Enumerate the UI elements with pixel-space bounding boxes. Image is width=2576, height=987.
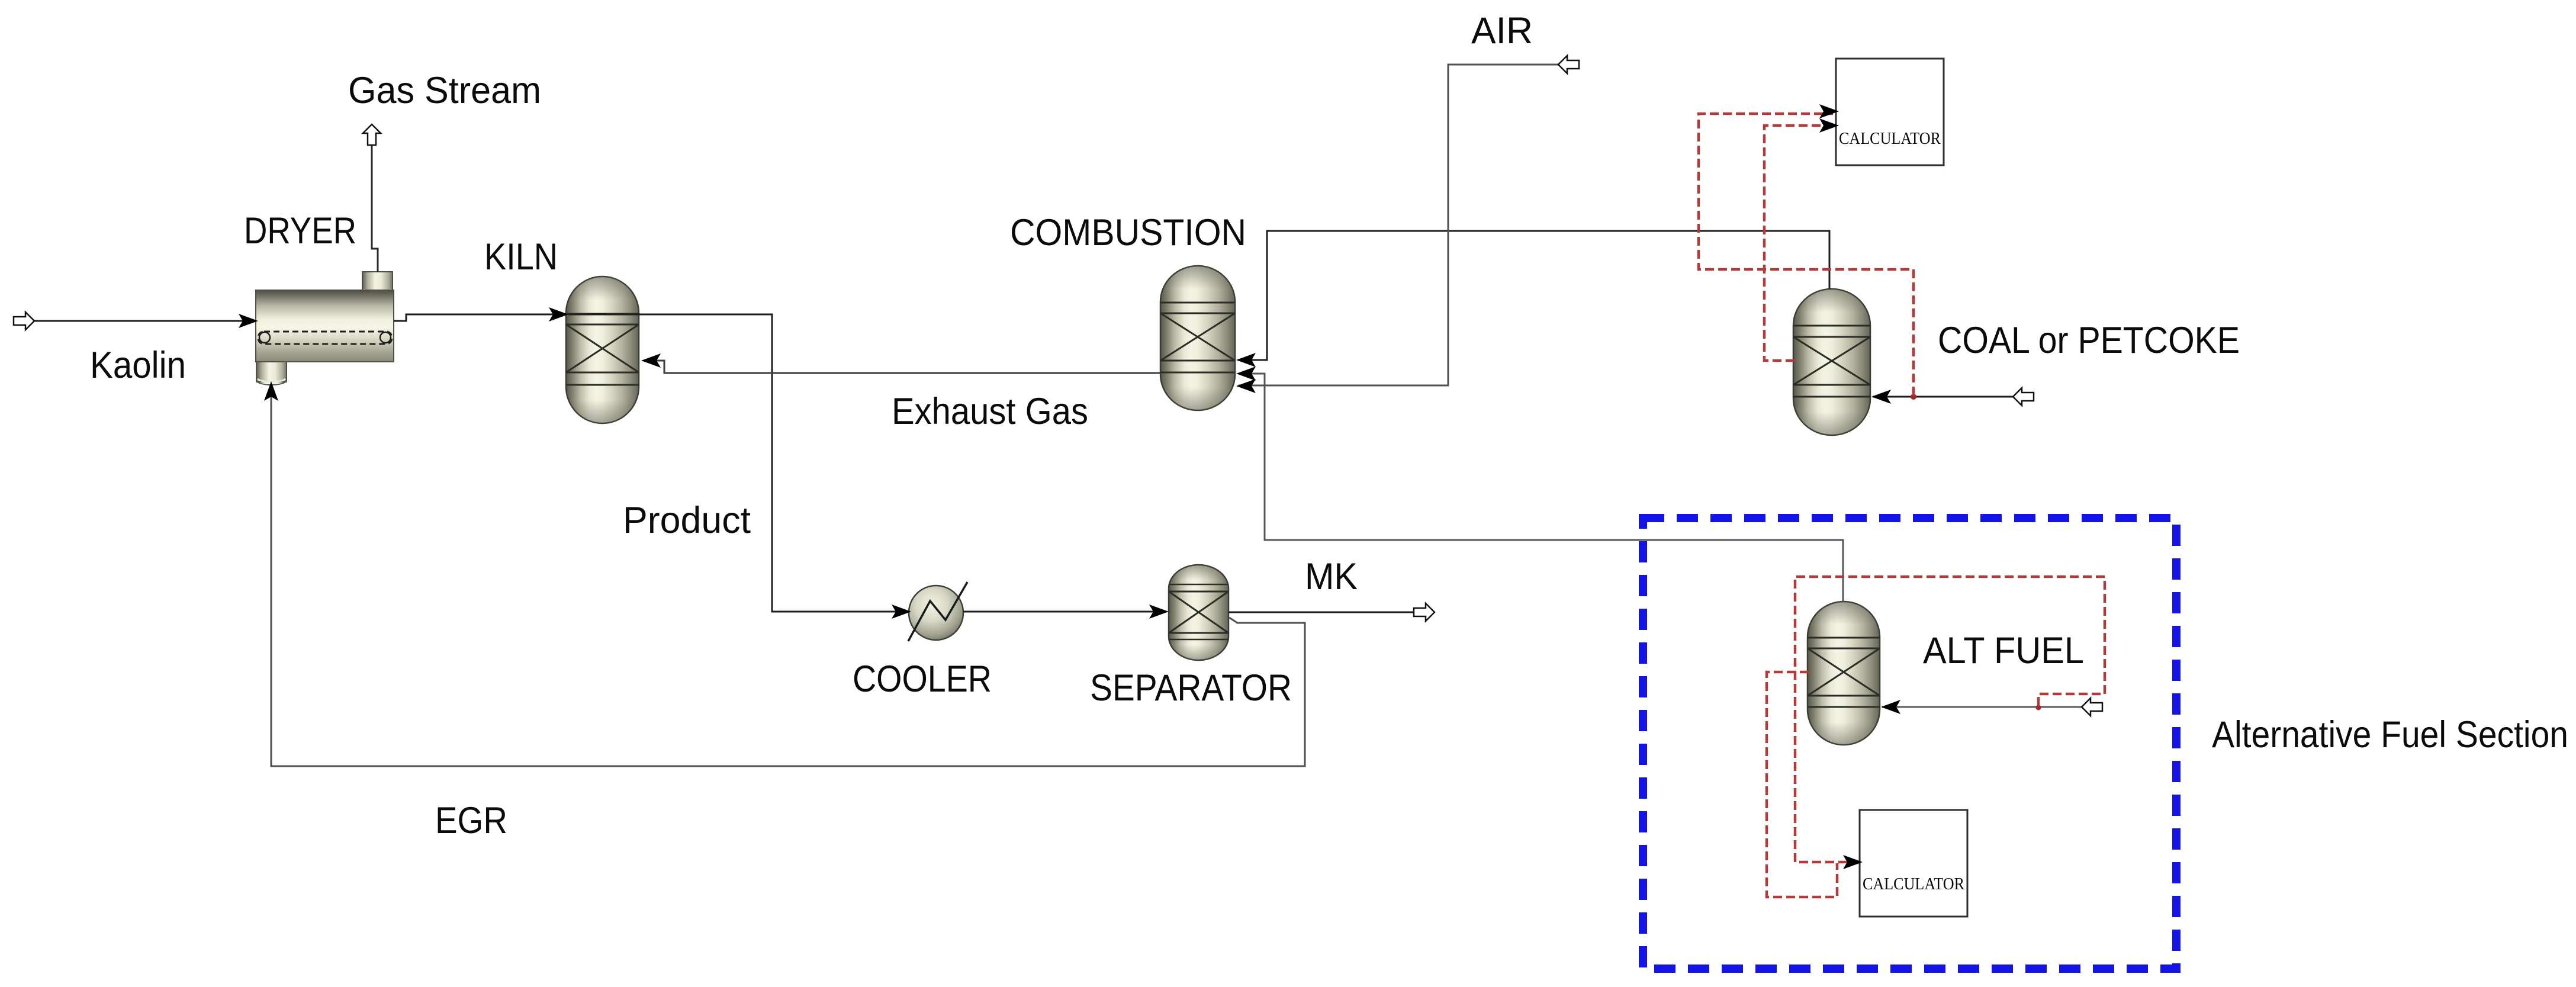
svg-text:DRYER: DRYER <box>244 210 356 252</box>
label EGR <box>435 800 507 841</box>
node arrow into ALT FUEL vessel <box>1881 700 1900 714</box>
label Product <box>623 500 751 541</box>
node arrow into COAL vessel <box>1871 390 1891 404</box>
node arrow into COOLER <box>892 605 911 619</box>
svg-text:Product: Product <box>623 500 751 541</box>
wire red signal COAL feed to upper CALCULATOR <box>1699 104 1913 396</box>
svg-text:EGR: EGR <box>435 800 507 841</box>
svg-text:KILN: KILN <box>484 236 558 278</box>
wire AIR feed to COMBUSTION <box>1239 65 1558 385</box>
wire MK product <box>1228 612 1415 613</box>
svg-text:MK: MK <box>1305 556 1358 597</box>
svg-text:CALCULATOR: CALCULATOR <box>1839 129 1941 148</box>
calculator CALCULATOR lower box <box>1860 810 1967 917</box>
wire red signal loop around ALT FUEL vessel <box>1795 577 2105 869</box>
label Alternative Fuel Section <box>2212 714 2568 755</box>
node red junction on ALT FUEL feed line <box>2036 705 2041 710</box>
wire Gas Stream riser <box>372 146 378 272</box>
svg-text:SEPARATOR: SEPARATOR <box>1090 667 1292 709</box>
label COAL or PETCOKE <box>1938 320 2240 361</box>
wire red signal COAL vessel to upper CALCULATOR <box>1764 118 1839 361</box>
node arrow into COMBUSTION upper <box>1236 353 1256 367</box>
dryer DRYER rotary drum <box>256 272 394 385</box>
wire red signal ALT FUEL vessel to lower CALCULATOR <box>1767 672 1837 897</box>
node arrow into DRYER <box>239 314 258 328</box>
svg-text:Kaolin: Kaolin <box>90 345 186 386</box>
wire COOLER to SEPARATOR <box>963 611 1158 613</box>
svg-text:CALCULATOR: CALCULATOR <box>1863 875 1965 893</box>
node arrow into KILN <box>549 307 568 322</box>
svg-text:Gas Stream: Gas Stream <box>348 70 541 111</box>
wire DRYER to KILN <box>394 314 564 321</box>
wire Exhaust Gas COMBUSTION to KILN <box>644 361 1160 373</box>
svg-text:Exhaust Gas: Exhaust Gas <box>892 391 1088 432</box>
label ALT FUEL <box>1923 630 2084 671</box>
svg-text:COMBUSTION: COMBUSTION <box>1010 212 1246 253</box>
label KILN <box>484 236 558 278</box>
svg-text:COOLER: COOLER <box>853 658 992 700</box>
wire ALT FUEL feed stream <box>1882 706 2082 708</box>
label Gas Stream <box>348 70 541 111</box>
node arrow into COMBUSTION middle <box>1236 366 1256 381</box>
wire COAL feed stream <box>1873 396 2013 398</box>
boundary Alternative Fuel Section blue dashed box <box>1643 518 2176 969</box>
wire KILN through-line and Product drop <box>568 314 898 612</box>
label DRYER <box>244 210 356 252</box>
vessel ALT FUEL decomposer <box>1808 602 1880 745</box>
vessel COAL decomposer <box>1793 289 1870 435</box>
wire EGR recycle SEPARATOR to DRYER <box>271 388 1305 766</box>
node AIR source open-arrow <box>1558 56 1579 73</box>
cooler COOLER heat exchanger <box>908 582 967 641</box>
svg-text:Alternative Fuel Section: Alternative Fuel Section <box>2212 714 2568 755</box>
label MK <box>1305 556 1358 597</box>
node arrow into COMBUSTION lower <box>1236 379 1256 393</box>
vessel KILN <box>566 277 639 423</box>
node COAL source open-arrow <box>2013 388 2034 406</box>
wire COAL decomposition products to COMBUSTION <box>1239 231 1829 360</box>
node arrow into SEPARATOR <box>1149 605 1169 619</box>
calculator CALCULATOR upper box <box>1836 59 1944 165</box>
vessel COMBUSTION <box>1160 266 1235 410</box>
node MK export open-arrow <box>1414 603 1435 621</box>
label Kaolin <box>90 345 186 386</box>
node Gas Stream export open-arrow <box>363 124 381 145</box>
node ALT FUEL source open-arrow <box>2082 698 2102 716</box>
vessel SEPARATOR <box>1169 565 1228 660</box>
wire ALT FUEL products to COMBUSTION <box>1239 374 1843 602</box>
wire Kaolin feed <box>34 320 256 322</box>
node arrow into KILN right side <box>641 353 661 368</box>
label COMBUSTION <box>1010 212 1246 253</box>
svg-text:COAL or PETCOKE: COAL or PETCOKE <box>1938 320 2240 361</box>
node Kaolin source open-arrow <box>14 312 34 330</box>
svg-text:ALT FUEL: ALT FUEL <box>1923 630 2084 671</box>
node arrow into DRYER bottom nozzle <box>264 381 278 401</box>
label COOLER <box>853 658 992 700</box>
label AIR <box>1471 10 1533 52</box>
label SEPARATOR <box>1090 667 1292 709</box>
label Exhaust Gas <box>892 391 1088 432</box>
svg-text:AIR: AIR <box>1471 10 1533 52</box>
node red junction on COAL feed line <box>1911 394 1916 400</box>
